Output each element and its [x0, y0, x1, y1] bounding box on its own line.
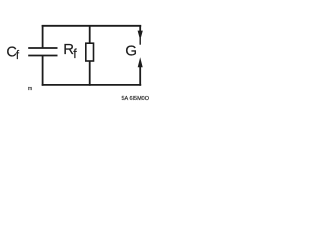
- spark gap G lower arrowhead (pointing up): [138, 57, 143, 67]
- wire right branch lower lead: [139, 66, 141, 86]
- svg-text:G: G: [125, 42, 137, 59]
- wire bottom rail: [42, 84, 142, 86]
- spark gap G upper electrode tip stub: [139, 38, 141, 45]
- svg-text:m: m: [28, 86, 32, 92]
- capacitor Cf bottom plate: [28, 55, 57, 57]
- wire top rail: [42, 25, 142, 27]
- capacitor Cf top plate: [28, 47, 57, 49]
- svg-text:5A 6I5M0O: 5A 6I5M0O: [122, 96, 150, 102]
- wire right branch upper lead: [139, 25, 141, 32]
- svg-text:f: f: [16, 50, 20, 62]
- wire middle branch upper lead: [89, 25, 91, 44]
- spark gap G upper arrowhead (pointing down): [138, 31, 143, 41]
- svg-text:f: f: [73, 47, 77, 61]
- wire left branch upper lead: [42, 25, 44, 48]
- wire left branch lower lead: [42, 56, 44, 86]
- resistor Rf body: [86, 43, 94, 61]
- wire middle branch lower lead: [89, 61, 91, 86]
